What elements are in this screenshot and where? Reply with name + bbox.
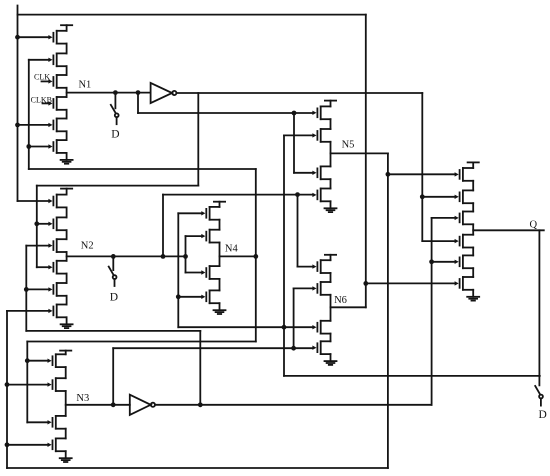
transistor M3-2 (48, 378, 66, 391)
inverter U2 (130, 395, 155, 415)
inverter U1 (151, 83, 177, 103)
wire: node N5 net (to output T1 gate, bottom rail, stack3 T2/T4 and stack2 T6 gates) (5, 153, 455, 468)
VDD supply of M7 (468, 162, 479, 168)
svg-text:Q: Q (530, 220, 538, 231)
wire: node N2 net (to N4 T2/T3 gates, N5 T4 and N6 T1 gates) (67, 192, 313, 272)
wire: source-drain bus of M4 stack (219, 220, 221, 291)
wire: node N4 net (to stack1 T2/T6 gates and stack3 T1/T3 gates) (25, 60, 258, 423)
VDD supply of M3 (60, 351, 71, 355)
transistor M1-5 (48, 119, 66, 132)
ground of output stack (467, 290, 479, 301)
transistor M2-4 (48, 261, 66, 274)
transistor M6-3 (312, 321, 330, 334)
wire: CLK gate lead (42, 80, 49, 82)
wire: source-drain bus of M6 stack (330, 273, 332, 341)
svg-text:N4: N4 (225, 244, 239, 255)
transistor M7-1 (455, 168, 474, 181)
transistor M4-1 (201, 207, 219, 220)
transistor M4-4 (201, 290, 219, 303)
transistor M1-6 (48, 140, 66, 153)
wire: source-drain bus of M7 stack (472, 181, 474, 277)
switch D (input sampling switch at N2) (109, 256, 117, 286)
transistor M7-5 (455, 255, 474, 268)
VDD supply of M4 (214, 202, 225, 207)
svg-text:CLK: CLK (34, 73, 50, 82)
VDD supply of M2 (61, 189, 72, 195)
ground of N6 stack (325, 354, 337, 365)
transistor M1-4 (48, 97, 66, 110)
VDD supply of M6 (325, 255, 336, 260)
transistor M2-5 (48, 283, 66, 296)
transistor M5-2 (312, 129, 330, 142)
transistor M5-3 (312, 166, 330, 179)
transistor M7-4 (455, 235, 474, 248)
transistor M7-3 (455, 212, 474, 225)
transistor M1-1 (48, 31, 66, 44)
wire: source-drain bus of M5 stack (330, 119, 332, 188)
wire: net N6 feedback (top rail, left bus x=17.5) (15, 6, 455, 308)
transistor M3-3 (48, 416, 66, 429)
svg-text:D: D (539, 409, 547, 421)
wire: inverter U1 output net (to stack2 T2/T4 gates and output stack T2/T4 gates) (34, 93, 454, 267)
transistor M2-6 (48, 305, 66, 318)
wire: source-drain bus of M1 stack (66, 44, 68, 141)
transistor M6-1 (312, 260, 330, 273)
transistor M5-4 (312, 189, 330, 202)
svg-text:N1: N1 (78, 80, 91, 91)
ground of stack 2 (61, 317, 73, 328)
VDD supply of M1 (61, 25, 72, 31)
transistor M6-4 (312, 341, 330, 354)
wire: CLKB gate lead (43, 102, 49, 104)
svg-text:D: D (110, 291, 118, 303)
transistor M1-3 (48, 75, 66, 88)
wire: inverter U2 output net (to output T3/T5 gates and stack2 T3/T5 gates) (24, 218, 455, 407)
svg-text:N2: N2 (81, 241, 94, 252)
transistor M1-2 (48, 53, 66, 66)
wire: node N3 net (to inverter U2 input and N6 T2/T4 gates) (66, 288, 313, 407)
wire: shared gate net (N5 T2, N6 T3, N4 T1/T4 gates, to Q switch line) (176, 135, 540, 376)
svg-text:N6: N6 (334, 295, 347, 306)
switch D (input sampling switch at N1) (111, 93, 119, 125)
VDD supply of M5 (325, 101, 336, 107)
ground of stack 3 (60, 451, 72, 462)
switch D (switch on Q feedback line) (535, 386, 543, 406)
transistor M4-3 (201, 266, 219, 279)
wire: node Q output net (473, 230, 544, 385)
transistor M2-1 (48, 195, 66, 208)
wire: source-drain bus of M3 stack (65, 367, 67, 438)
transistor M3-4 (48, 438, 66, 451)
wire: source-drain bus of M2 stack (66, 207, 68, 304)
transistor M4-2 (201, 230, 219, 243)
wire: node N1 net (to inverter U1 and N5 gates) (67, 90, 313, 173)
transistor M2-3 (48, 239, 66, 252)
ground of N5 stack (325, 201, 337, 212)
svg-text:D: D (111, 129, 119, 141)
svg-text:N5: N5 (342, 140, 355, 151)
ground of N4 stack (214, 303, 226, 314)
transistor M7-6 (455, 277, 474, 290)
transistor M3-1 (48, 354, 66, 367)
svg-text:N3: N3 (76, 393, 89, 404)
transistor M2-2 (48, 217, 66, 230)
transistor M5-1 (312, 106, 330, 119)
transistor M7-2 (455, 190, 474, 203)
ground of stack 1 (61, 153, 73, 164)
transistor M6-2 (312, 282, 330, 295)
